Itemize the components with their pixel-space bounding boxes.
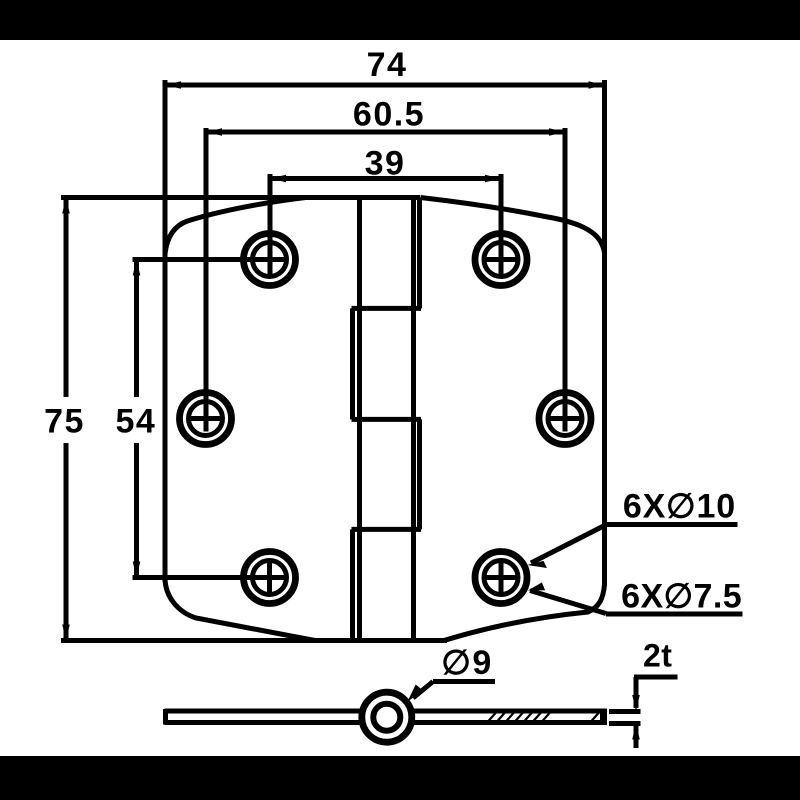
svg-text:60.5: 60.5	[353, 96, 425, 134]
svg-text:2t: 2t	[643, 638, 672, 674]
svg-text:75: 75	[44, 403, 85, 441]
svg-text:6X∅10: 6X∅10	[623, 488, 736, 526]
svg-text:39: 39	[365, 145, 406, 183]
svg-text:54: 54	[115, 403, 156, 441]
svg-text:∅9: ∅9	[441, 644, 493, 682]
svg-text:74: 74	[367, 46, 408, 84]
svg-text:6X∅7.5: 6X∅7.5	[621, 578, 742, 616]
